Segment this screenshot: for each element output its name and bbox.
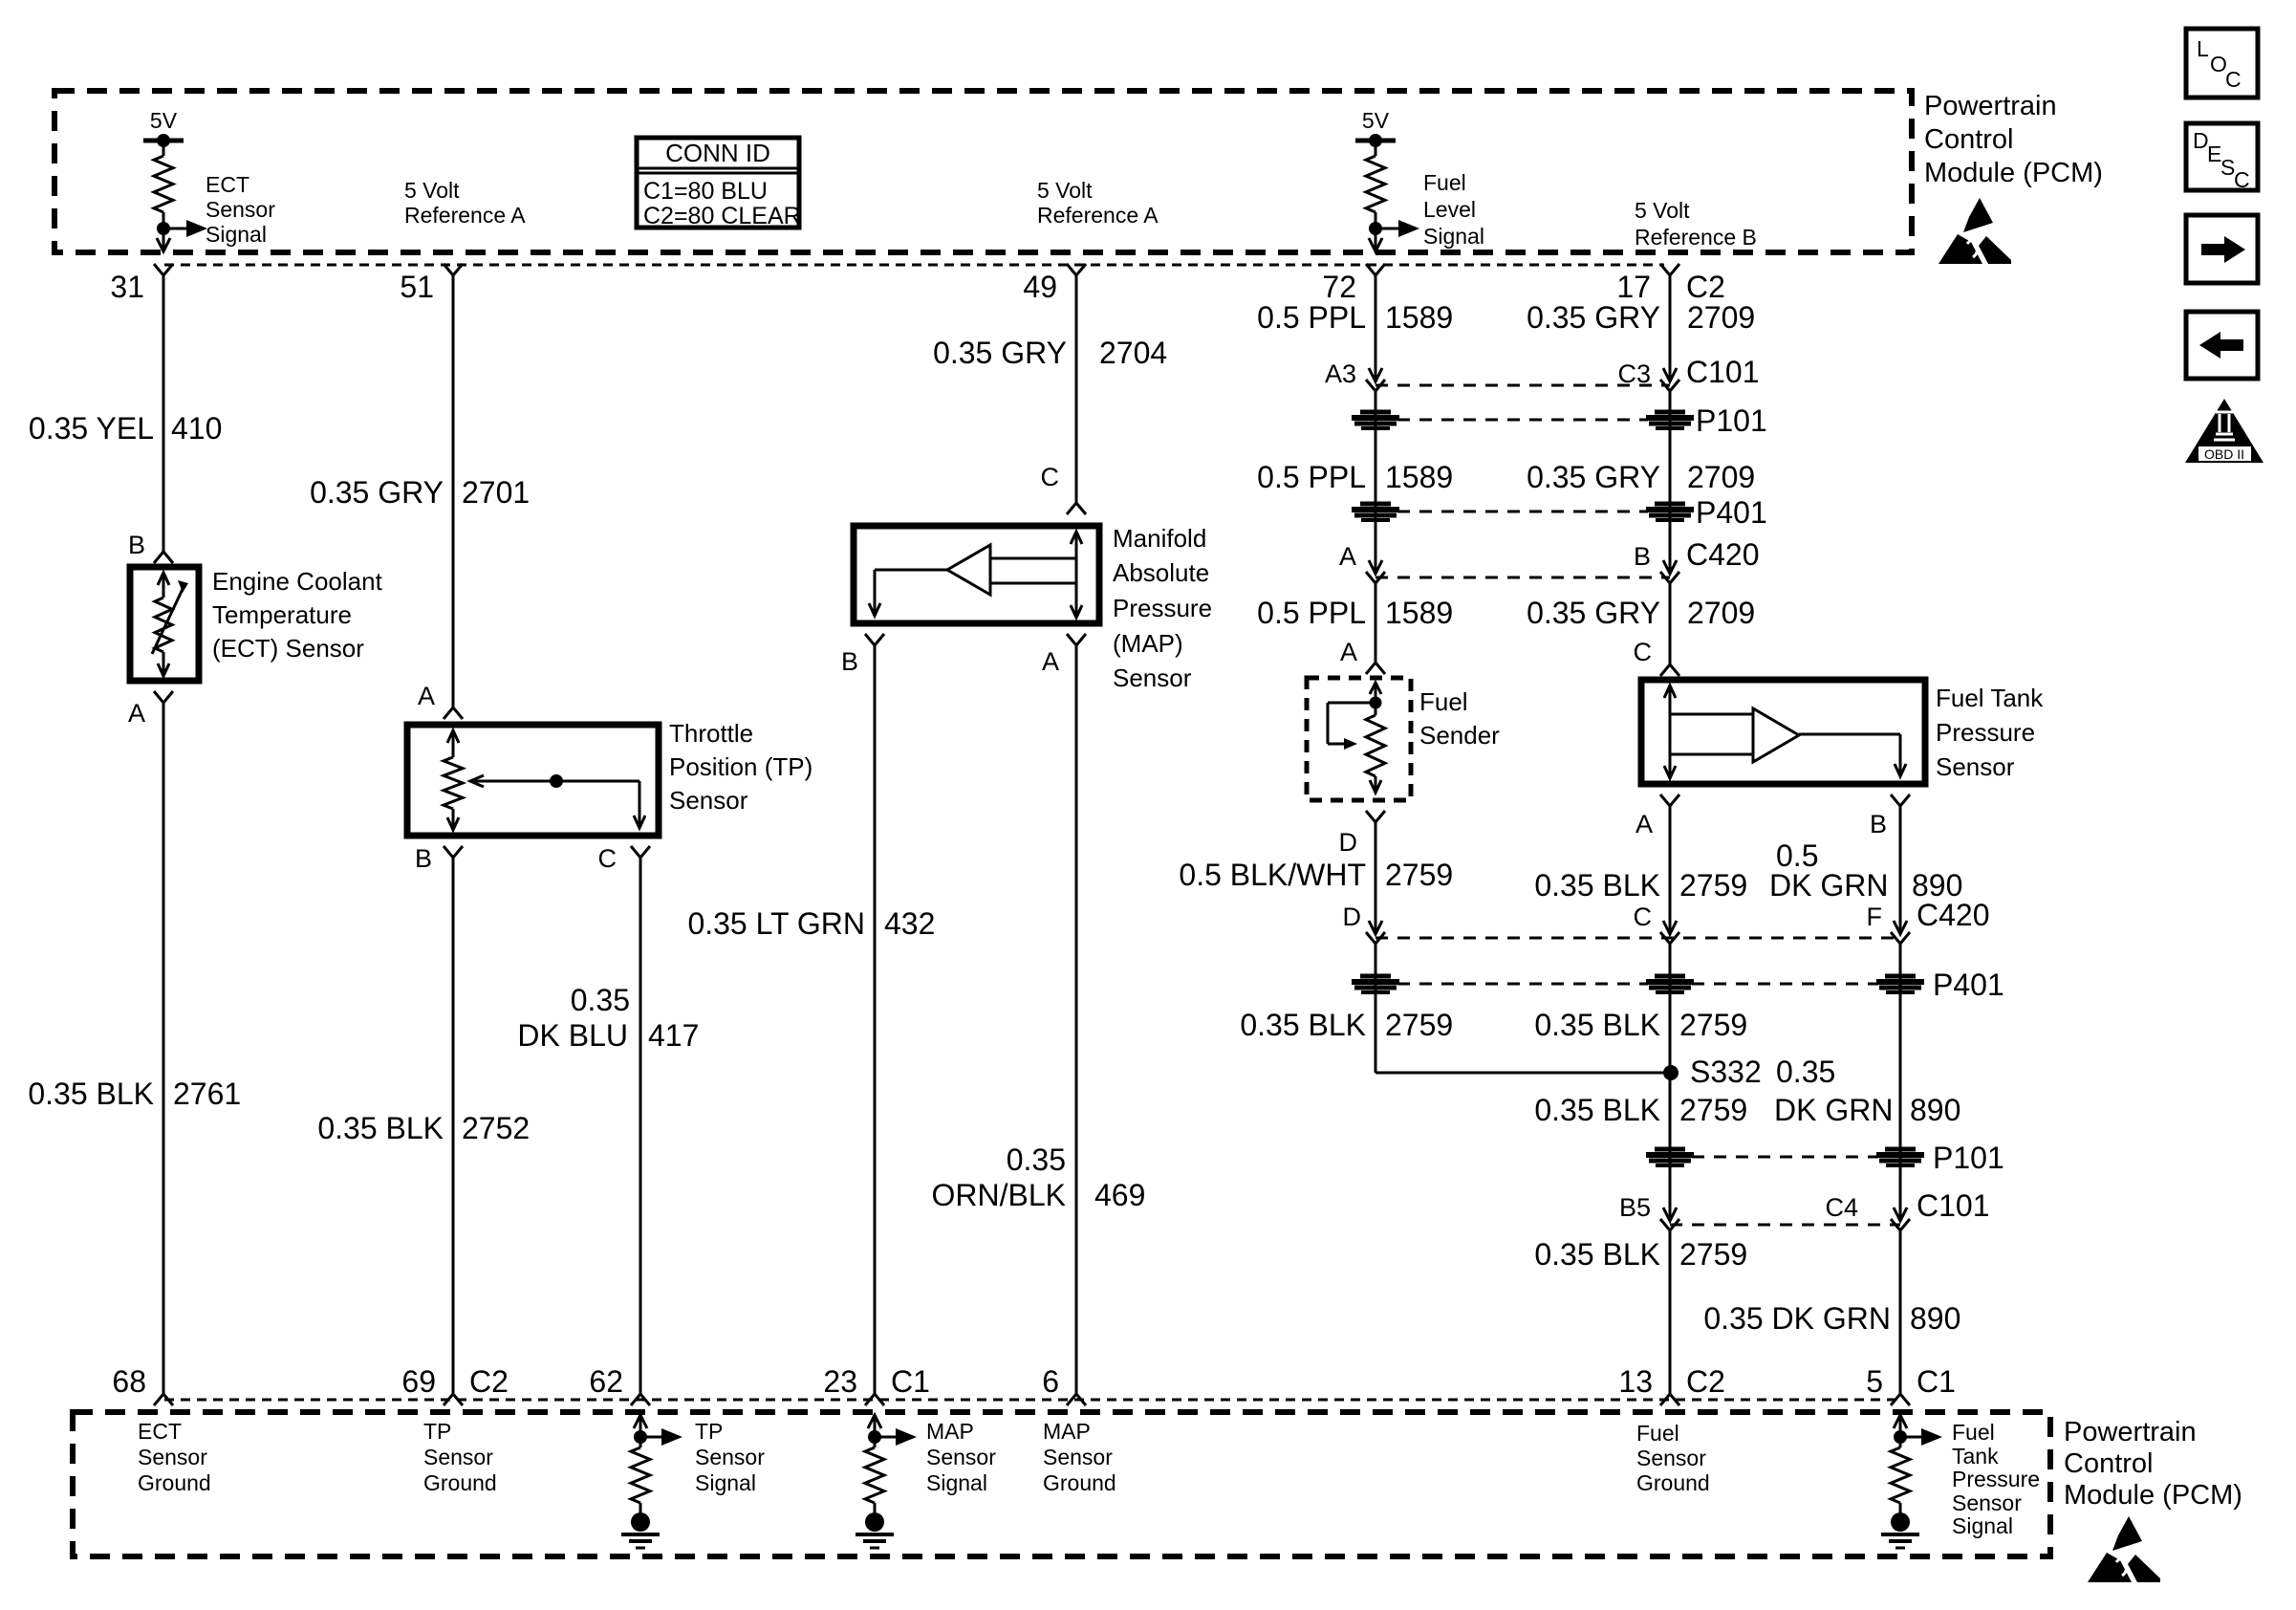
node B (MAP) — [841, 634, 884, 676]
label 0.35 BLK 2752 — [317, 1111, 530, 1145]
splice connector P101 (right) — [1646, 412, 1694, 428]
svg-text:ECT: ECT — [206, 172, 249, 197]
Engine Coolant Temperature (ECT) Sensor label — [212, 567, 383, 663]
node C4 (C101) — [1825, 1188, 1989, 1230]
svg-text:Sensor: Sensor — [669, 786, 748, 815]
node B (C420) — [1634, 537, 1760, 583]
svg-text:Sender: Sender — [1419, 721, 1500, 750]
svg-text:2759: 2759 — [1385, 1008, 1453, 1042]
wire 0.35 BLK 2761 (ECT A to pin68) — [162, 703, 165, 1394]
connector face line C101 top — [1375, 384, 1670, 387]
svg-text:A3: A3 — [1325, 359, 1356, 388]
MAP Sensor Ground label — [1043, 1419, 1116, 1495]
svg-text:L: L — [2197, 36, 2209, 61]
svg-text:C: C — [1634, 903, 1653, 931]
svg-text:Level: Level — [1423, 197, 1476, 222]
svg-text:A: A — [128, 699, 145, 728]
pin 23 terminal (PCM bottom) — [823, 1364, 930, 1405]
svg-text:(MAP): (MAP) — [1113, 629, 1183, 658]
svg-text:DK BLU: DK BLU — [517, 1018, 628, 1053]
svg-text:2704: 2704 — [1099, 336, 1167, 370]
svg-text:F: F — [1867, 903, 1883, 931]
CONN ID table — [637, 138, 801, 229]
Throttle Position sensor box — [407, 725, 659, 836]
svg-text:C: C — [598, 844, 617, 873]
svg-text:2752: 2752 — [462, 1111, 530, 1145]
label 0.35 GRY 2709 (3) — [1527, 596, 1755, 630]
svg-text:C1=80 BLU: C1=80 BLU — [643, 178, 768, 205]
svg-text:1589: 1589 — [1385, 460, 1453, 494]
pin 72 terminal (PCM top) — [1322, 264, 1385, 304]
ECT Sensor Ground label — [138, 1419, 211, 1495]
wire 0.5 PPL 1589 segment 2 — [1375, 391, 1377, 574]
svg-text:Pressure: Pressure — [1952, 1467, 2040, 1491]
label 0.35 GRY 2709 (2) — [1527, 460, 1755, 494]
svg-text:Fuel Tank: Fuel Tank — [1936, 684, 2044, 712]
node B5 (C101) — [1619, 1193, 1679, 1230]
svg-text:TP: TP — [695, 1419, 723, 1444]
svg-text:0.35 GRY: 0.35 GRY — [933, 336, 1067, 370]
Fuel Sensor Ground label — [1636, 1421, 1710, 1495]
svg-text:2759: 2759 — [1385, 858, 1453, 892]
dashed link P401 row2 — [1397, 983, 1878, 986]
svg-text:Module (PCM): Module (PCM) — [1924, 158, 2103, 188]
svg-text:890: 890 — [1910, 1301, 1960, 1336]
label 0.5 PPL 1589 (2) — [1257, 460, 1453, 494]
svg-text:C101: C101 — [1686, 355, 1760, 389]
connector face line C420 top — [1375, 577, 1670, 579]
Manifold Absolute Pressure sensor box — [854, 526, 1099, 623]
node A (TP) — [418, 682, 463, 719]
node D (Fuel Sender) — [1339, 811, 1386, 857]
svg-text:C: C — [2234, 167, 2250, 192]
svg-text:A: A — [1339, 542, 1356, 571]
svg-text:Sensor: Sensor — [206, 197, 275, 222]
pin 17 terminal (PCM top) — [1616, 264, 1725, 304]
MAP Sensor Signal label — [926, 1419, 996, 1495]
wire 0.35 DK GRN 890 (mid) — [1899, 944, 1902, 1221]
svg-text:0.35 BLK: 0.35 BLK — [1534, 1008, 1660, 1042]
label P401 (bottom) — [1933, 968, 2004, 1002]
svg-text:CONN ID: CONN ID — [665, 139, 770, 167]
svg-text:Ground: Ground — [1636, 1470, 1710, 1495]
pin 62 terminal (PCM bottom) — [589, 1364, 650, 1405]
wire 0.35 YEL 410 (pin31 to ECT B) — [162, 275, 165, 552]
svg-text:D: D — [1343, 903, 1362, 931]
pin 5 terminal (PCM bottom) — [1866, 1364, 1956, 1405]
svg-text:C4: C4 — [1825, 1193, 1858, 1222]
svg-text:17: 17 — [1616, 270, 1651, 304]
PCM bottom connector dashed face line — [164, 1399, 1900, 1402]
svg-text:C101: C101 — [1917, 1188, 1990, 1223]
wire 0.35 BLK 2752 (TP B to pin69) — [452, 858, 455, 1394]
svg-text:Ground: Ground — [1043, 1470, 1116, 1495]
svg-text:C1: C1 — [891, 1364, 930, 1399]
node A (ECT) — [128, 691, 173, 728]
splice connector P401 row2 (left) — [1352, 976, 1399, 992]
ESD symbol bottom — [2088, 1516, 2160, 1582]
svg-text:Sensor: Sensor — [423, 1445, 493, 1469]
label 0.35 GRY 2709 (1) — [1527, 300, 1755, 335]
svg-text:ECT: ECT — [138, 1419, 182, 1444]
svg-text:62: 62 — [589, 1364, 623, 1399]
svg-text:2761: 2761 — [173, 1077, 241, 1111]
svg-text:B: B — [1634, 542, 1651, 571]
Throttle Position (TP) Sensor label — [669, 719, 812, 815]
svg-text:0.35: 0.35 — [1776, 1055, 1835, 1089]
wire 0.35 GRY 2701 (pin51 to TP A) — [452, 275, 455, 707]
wire 0.35 GRY 2709 segment 1 (pin17 down) — [1669, 275, 1672, 381]
svg-text:Reference B: Reference B — [1635, 225, 1757, 250]
svg-text:OBD II: OBD II — [2204, 446, 2244, 462]
connector face line C101 bottom — [1670, 1224, 1900, 1227]
svg-text:Reference A: Reference A — [404, 203, 526, 228]
svg-text:DK GRN: DK GRN — [1769, 868, 1888, 903]
svg-text:Reference A: Reference A — [1037, 203, 1159, 228]
svg-text:Fuel: Fuel — [1952, 1420, 1995, 1445]
svg-text:(ECT) Sensor: (ECT) Sensor — [212, 634, 364, 663]
svg-text:469: 469 — [1094, 1178, 1145, 1212]
svg-text:31: 31 — [110, 270, 144, 304]
svg-text:2709: 2709 — [1687, 460, 1755, 494]
svg-text:13: 13 — [1618, 1364, 1653, 1399]
svg-text:A: A — [418, 682, 435, 710]
node A (Fuel Sender) — [1340, 638, 1385, 674]
wire fuel sensor ground (S332 area) — [1669, 944, 1672, 1221]
label P101 (bottom) — [1933, 1141, 2004, 1175]
svg-text:432: 432 — [884, 906, 935, 941]
svg-text:410: 410 — [171, 411, 222, 446]
node A (FTP) — [1635, 794, 1679, 838]
svg-text:Sensor: Sensor — [1936, 752, 2015, 781]
pin 51 terminal (PCM top) — [400, 264, 463, 304]
svg-text:0.35 BLK: 0.35 BLK — [317, 1111, 444, 1145]
pin 6 terminal (PCM bottom) — [1042, 1364, 1086, 1405]
svg-text:TP: TP — [423, 1419, 451, 1444]
DESC icon — [2186, 123, 2258, 192]
svg-text:5 Volt: 5 Volt — [404, 178, 460, 203]
svg-text:Control: Control — [2064, 1448, 2154, 1479]
pin 13 terminal (PCM bottom) — [1618, 1364, 1725, 1405]
svg-text:Signal: Signal — [1952, 1513, 2013, 1538]
svg-text:2759: 2759 — [1679, 868, 1747, 903]
FTP amplifier triangle — [1670, 708, 1906, 776]
svg-text:A: A — [1340, 638, 1357, 666]
svg-text:Module (PCM): Module (PCM) — [2064, 1480, 2242, 1511]
svg-text:Engine Coolant: Engine Coolant — [212, 567, 383, 596]
Fuel Tank Pressure Sensor Signal input (pin5) — [1881, 1415, 1942, 1548]
pin 68 terminal (PCM bottom) — [112, 1364, 173, 1405]
svg-text:B5: B5 — [1619, 1193, 1651, 1222]
svg-text:P101: P101 — [1933, 1141, 2004, 1175]
wire 0.5 PPL 1589 segment 3 — [1375, 583, 1377, 663]
svg-text:5V: 5V — [150, 108, 178, 133]
Fuel Sender dashed box — [1307, 678, 1411, 800]
splice connector P401 row2 (mid) — [1646, 976, 1694, 992]
splice connector P401 row2 (right) — [1876, 976, 1924, 992]
Powertrain Control Module (PCM) label top — [1924, 91, 2103, 188]
ECT sensor box — [130, 567, 199, 681]
arrow-left icon — [2186, 312, 2258, 379]
TP wiper — [470, 774, 645, 828]
dashed link P401 — [1397, 511, 1648, 513]
svg-text:B: B — [128, 531, 145, 559]
Powertrain Control Module (PCM) label bottom — [2064, 1417, 2242, 1511]
node A (MAP) — [1042, 634, 1086, 676]
svg-text:0.35 GRY: 0.35 GRY — [1527, 300, 1660, 335]
svg-text:P401: P401 — [1933, 968, 2004, 1002]
Fuel Level Signal label — [1423, 170, 1484, 249]
label P101 (top) — [1696, 403, 1767, 438]
wire 0.35 ORN/BLK 469 (MAP A to pin6) — [1075, 645, 1078, 1394]
svg-text:Position (TP): Position (TP) — [669, 752, 812, 781]
label 0.35 DK GRN 890 — [1703, 1301, 1960, 1336]
label 0.5 BLK/WHT 2759 — [1179, 858, 1453, 892]
svg-text:C: C — [2225, 67, 2242, 92]
label 0.35 BLK 2759 (left) — [1240, 1008, 1453, 1042]
node S332 — [1663, 1055, 1835, 1089]
svg-text:2709: 2709 — [1687, 300, 1755, 335]
svg-text:C2: C2 — [469, 1364, 509, 1399]
svg-text:2759: 2759 — [1679, 1093, 1747, 1127]
svg-text:MAP: MAP — [926, 1419, 974, 1444]
resistor (ECT sensor pull-up, 5V) — [143, 108, 207, 251]
label 0.35 GRY 2701 — [310, 475, 530, 510]
svg-text:0.35 LT GRN: 0.35 LT GRN — [687, 906, 865, 941]
TP Sensor Ground label — [423, 1419, 497, 1495]
svg-text:2759: 2759 — [1679, 1008, 1747, 1042]
svg-text:Control: Control — [1924, 124, 2014, 155]
svg-text:5V: 5V — [1362, 108, 1390, 133]
svg-text:Fuel: Fuel — [1423, 170, 1466, 195]
MAP internal wire — [1071, 532, 1082, 618]
svg-text:Powertrain: Powertrain — [2064, 1417, 2197, 1447]
ECT Sensor Signal label — [206, 172, 275, 247]
label 0.35 ORN/BLK 469 — [932, 1142, 1146, 1212]
node A3 (C101) — [1325, 359, 1385, 391]
label 0.5 PPL 1589 (3) — [1257, 596, 1453, 630]
node B (ECT) — [128, 531, 173, 563]
svg-text:Sensor: Sensor — [1636, 1446, 1706, 1470]
svg-text:0.35: 0.35 — [1007, 1142, 1066, 1177]
label 0.5 PPL 1589 (1) — [1257, 300, 1453, 335]
svg-text:Signal: Signal — [206, 222, 267, 247]
label 0.35 BLK 2759 / 0.5 DK GRN 890 — [1534, 838, 1962, 903]
label 0.35 BLK 2761 — [28, 1077, 241, 1111]
svg-text:A: A — [1635, 810, 1653, 838]
svg-text:C420: C420 — [1686, 537, 1760, 572]
wire 0.35 GRY 2704 (pin49 to MAP C) — [1075, 275, 1078, 503]
svg-text:Sensor: Sensor — [1043, 1445, 1113, 1469]
Fuel Tank Pressure Sensor label — [1936, 684, 2044, 781]
node F (C420) — [1867, 898, 1990, 944]
svg-text:C1: C1 — [1917, 1364, 1956, 1399]
node A (C420 left) — [1339, 542, 1385, 583]
svg-text:0.35 GRY: 0.35 GRY — [310, 475, 444, 510]
svg-text:0.35 BLK: 0.35 BLK — [28, 1077, 154, 1111]
OBD II icon — [2185, 399, 2264, 463]
svg-text:0.35 DK GRN: 0.35 DK GRN — [1703, 1301, 1891, 1336]
svg-text:0.35 YEL: 0.35 YEL — [29, 411, 154, 446]
5 Volt Reference A label (pin 51) — [404, 178, 526, 228]
splice connector P101 row2 (mid) — [1646, 1149, 1694, 1165]
node C (FTP) — [1634, 638, 1680, 676]
pin 49 terminal (PCM top) — [1023, 264, 1086, 304]
svg-text:C: C — [1041, 463, 1060, 491]
svg-text:B: B — [415, 844, 432, 873]
svg-text:Pressure: Pressure — [1113, 594, 1212, 622]
splice connector P101 row2 (right) — [1876, 1149, 1924, 1165]
svg-text:2701: 2701 — [462, 475, 530, 510]
svg-text:Signal: Signal — [926, 1470, 987, 1495]
connector face line C420 bottom — [1375, 937, 1900, 940]
label 0.35 LT GRN 432 — [687, 906, 935, 941]
svg-text:Sensor: Sensor — [138, 1445, 207, 1469]
svg-text:72: 72 — [1322, 270, 1356, 304]
node B (FTP) — [1870, 794, 1910, 838]
svg-text:49: 49 — [1023, 270, 1057, 304]
label 0.35 YEL 410 — [29, 411, 222, 446]
svg-text:B: B — [841, 647, 858, 676]
svg-text:5 Volt: 5 Volt — [1635, 198, 1690, 223]
svg-text:Temperature: Temperature — [212, 600, 352, 629]
svg-text:1589: 1589 — [1385, 596, 1453, 630]
svg-text:5: 5 — [1866, 1364, 1883, 1399]
svg-text:Powertrain: Powertrain — [1924, 91, 2057, 121]
wire 0.35 DK BLU 417 (TP C to pin62) — [639, 858, 642, 1394]
svg-text:Sensor: Sensor — [926, 1445, 996, 1469]
node C (TP) — [598, 844, 651, 873]
Fuel Tank Pressure Sensor Signal label — [1952, 1420, 2040, 1538]
splice connector P101 (left) — [1352, 412, 1399, 428]
svg-text:C: C — [1634, 638, 1653, 666]
dashed link P101 row2 — [1692, 1156, 1878, 1159]
svg-text:DK GRN: DK GRN — [1774, 1093, 1893, 1127]
svg-text:6: 6 — [1042, 1364, 1059, 1399]
svg-text:Sensor: Sensor — [1952, 1490, 2022, 1515]
svg-text:Pressure: Pressure — [1936, 718, 2035, 747]
5 Volt Reference A label (pin 49) — [1037, 178, 1159, 228]
wire 0.5 DK GRN 890 (FTP B down) — [1899, 806, 1902, 934]
wire 0.35 LT GRN 432 (MAP B to pin23) — [874, 645, 877, 1394]
splice connector P401 (right) — [1646, 504, 1694, 520]
node D (C420) — [1343, 903, 1386, 944]
svg-text:69: 69 — [401, 1364, 436, 1399]
svg-text:0.35 GRY: 0.35 GRY — [1527, 596, 1660, 630]
svg-text:0.5 PPL: 0.5 PPL — [1257, 300, 1366, 335]
svg-text:23: 23 — [823, 1364, 857, 1399]
svg-text:A: A — [1042, 647, 1059, 676]
MAP Sensor Signal input (pin23) — [856, 1415, 917, 1548]
PCM top connector dashed face line — [164, 264, 1664, 267]
svg-text:0.35: 0.35 — [571, 983, 630, 1017]
svg-text:0.5 PPL: 0.5 PPL — [1257, 460, 1366, 494]
wire 0.35 GRY 2709 segment 3 — [1669, 583, 1672, 664]
svg-text:P401: P401 — [1696, 495, 1767, 530]
svg-text:P101: P101 — [1696, 403, 1767, 438]
svg-text:1589: 1589 — [1385, 300, 1453, 335]
svg-text:B: B — [1870, 810, 1887, 838]
svg-text:Sensor: Sensor — [1113, 664, 1192, 692]
PCM bottom dashed box — [73, 1412, 2050, 1556]
svg-text:0.5 PPL: 0.5 PPL — [1257, 596, 1366, 630]
svg-text:417: 417 — [648, 1018, 699, 1053]
svg-text:Ground: Ground — [138, 1470, 211, 1495]
TP potentiometer — [444, 730, 463, 830]
Fuel Sender rheostat — [1328, 683, 1385, 793]
svg-text:Signal: Signal — [1423, 224, 1484, 249]
wire 0.35 DK GRN 890 (to pin5) — [1899, 1230, 1902, 1394]
arrow-right icon — [2186, 215, 2258, 283]
wire 0.35 BLK 2759 (to pin13) — [1669, 1230, 1672, 1394]
svg-text:0.35 BLK: 0.35 BLK — [1534, 1237, 1660, 1272]
svg-text:Ground: Ground — [423, 1470, 497, 1495]
svg-text:2759: 2759 — [1679, 1237, 1747, 1272]
label 0.35 BLK 2759 (mid) — [1534, 1008, 1747, 1042]
dashed link P101 — [1397, 419, 1648, 422]
svg-text:ORN/BLK: ORN/BLK — [932, 1178, 1066, 1212]
svg-text:Sensor: Sensor — [695, 1445, 765, 1469]
resistor (Fuel Level pull-up, 5V) — [1355, 108, 1419, 251]
svg-text:D: D — [1339, 828, 1358, 857]
TP Sensor Signal input (pin62) — [621, 1415, 682, 1548]
svg-text:890: 890 — [1910, 1093, 1960, 1127]
svg-text:C2: C2 — [1686, 270, 1725, 304]
svg-text:Tank: Tank — [1952, 1444, 1999, 1469]
svg-text:68: 68 — [112, 1364, 146, 1399]
node C (C420 row2) — [1634, 903, 1680, 944]
svg-text:0.35 BLK: 0.35 BLK — [1534, 868, 1660, 903]
Manifold Absolute Pressure (MAP) Sensor label — [1113, 524, 1212, 692]
svg-text:S332: S332 — [1690, 1055, 1762, 1089]
wire 0.35 BLK 2759 (FTP A down) — [1669, 806, 1672, 934]
label 0.35 DK BLU 417 — [517, 983, 699, 1053]
label 0.35 BLK 2759 / DK GRN 890 (below S332) — [1534, 1093, 1960, 1127]
label 0.35 BLK 2759 (bottom) — [1534, 1237, 1747, 1272]
svg-text:C420: C420 — [1917, 898, 1990, 932]
svg-text:Manifold: Manifold — [1113, 524, 1206, 553]
pin 31 terminal (PCM top) — [110, 264, 173, 304]
MAP amplifier triangle — [869, 545, 1076, 616]
svg-text:0.35 BLK: 0.35 BLK — [1240, 1008, 1366, 1042]
FTP internal wire — [1664, 685, 1676, 778]
svg-text:Absolute: Absolute — [1113, 558, 1209, 587]
Fuel Sender label — [1419, 687, 1500, 750]
node C (MAP) — [1041, 463, 1087, 514]
svg-text:2709: 2709 — [1687, 596, 1755, 630]
svg-text:5 Volt: 5 Volt — [1037, 178, 1093, 203]
label 0.35 GRY 2704 — [933, 336, 1167, 370]
node C3 (C101) — [1617, 355, 1759, 391]
splice connector P401 (left) — [1352, 504, 1399, 520]
svg-text:Fuel: Fuel — [1419, 687, 1468, 716]
svg-text:Signal: Signal — [695, 1470, 756, 1495]
TP Sensor Signal label — [695, 1419, 765, 1495]
svg-text:0.5 BLK/WHT: 0.5 BLK/WHT — [1179, 858, 1366, 892]
PCM top dashed box — [54, 91, 1912, 252]
Fuel Tank Pressure sensor box — [1641, 680, 1925, 784]
label P401 (top) — [1696, 495, 1767, 530]
svg-text:Throttle: Throttle — [669, 719, 753, 748]
svg-text:0.35 GRY: 0.35 GRY — [1527, 460, 1660, 494]
ESD symbol top — [1939, 198, 2011, 264]
5 Volt Reference B label — [1635, 198, 1757, 250]
ECT thermistor — [152, 573, 188, 676]
LOC icon — [2186, 29, 2258, 98]
pin 69 terminal (PCM bottom) — [401, 1364, 509, 1405]
wire 0.35 BLK 2759 (to S332) — [1375, 944, 1671, 1073]
wire 0.5 BLK/WHT 2759 (sender D down) — [1375, 822, 1377, 934]
